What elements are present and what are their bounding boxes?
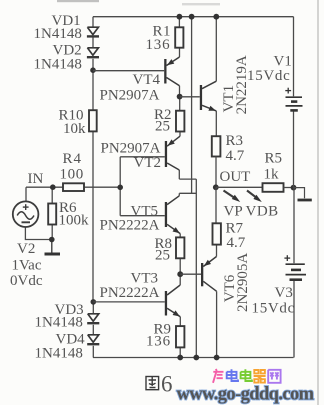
wire: VD2 to bias node A — [92, 59, 94, 70]
input network — [25, 157, 164, 240]
wire: V2 bottom to ground node — [25, 227, 51, 240]
wire: R10 bottom down crossing input wire to node B — [92, 131, 94, 302]
wire: V1 bottom to mid dot — [293, 111, 295, 187]
svg-text:VT4: VT4 — [133, 72, 161, 88]
svg-text:2N2219A: 2N2219A — [234, 55, 250, 114]
wire: node D down to VT3 collector diagonal — [179, 274, 181, 285]
diode VD2 1N4148 — [87, 48, 99, 57]
wire: VT1 collector to top rail — [215, 17, 217, 82]
wire: OUT node down to R7 — [215, 187, 217, 223]
wire: collector jog upper nub — [179, 178, 196, 180]
wire: R9 bottom to bottom rail — [179, 347, 181, 357]
svg-text:4.7: 4.7 — [227, 235, 246, 251]
svg-text:25: 25 — [155, 119, 170, 135]
wire: mid rail lower (jog to bottom rail) — [195, 179, 197, 357]
wire: VT1 emitter to R3 — [215, 111, 217, 136]
svg-text:6: 6 — [161, 372, 173, 397]
svg-text:OUT: OUT — [220, 169, 251, 185]
svg-text:PN2907A: PN2907A — [100, 88, 160, 104]
node: V2/R6 ground dot — [49, 237, 55, 243]
wire: OUT node to R5 — [216, 186, 263, 188]
resistor R3 — [212, 136, 221, 156]
wire: R1 bottom to VT4 emitter diagonal — [179, 48, 181, 57]
wire: between VD3 and VD4 — [92, 325, 94, 335]
wire: node A to R10 top — [92, 70, 94, 110]
svg-text:15Vdc: 15Vdc — [247, 68, 291, 84]
char 网 (violet) — [268, 370, 280, 383]
node D dot (R8 / VT3.c / VT6.b) — [177, 271, 183, 277]
wire: R6 top to input node — [51, 187, 53, 203]
char 电 (blue) — [227, 369, 238, 381]
transistor VT5 PN2222A — [165, 196, 180, 234]
wire: collector jog lower nub — [179, 192, 196, 194]
top rail junction dots — [177, 14, 183, 20]
scan page right edge line — [317, 0, 319, 405]
transistor VT2 PN2907A — [165, 136, 180, 170]
watermark 广电电器网 — [213, 369, 281, 383]
wire: VT5 collector stub — [178, 193, 180, 196]
wire: VT5 base — [120, 215, 165, 217]
svg-text:R5: R5 — [265, 151, 283, 167]
node: input dot at R4 left — [50, 184, 56, 190]
node A dot (bias top, VT4 base tap) — [90, 67, 96, 73]
wire: node B to VD3 — [92, 302, 94, 314]
wire: between VD1 and VD2 — [92, 38, 94, 48]
node: input split dot — [117, 185, 123, 191]
node C dot (VT4.c / R2 / VT1.b) — [177, 94, 183, 100]
wire: R3 to OUT node — [215, 157, 217, 188]
diode VD3 1N4148 — [87, 314, 99, 323]
svg-text:1Vac: 1Vac — [12, 258, 42, 274]
wire: IN horizontal to R4 — [26, 186, 63, 188]
svg-text:V3: V3 — [275, 285, 293, 301]
svg-text:1k: 1k — [264, 167, 280, 183]
svg-text:1N4148: 1N4148 — [35, 315, 83, 331]
svg-text:R7: R7 — [226, 220, 244, 236]
scan top cut-off text remnants — [57, 0, 99, 2]
ground symbol (right) — [298, 199, 312, 202]
wire: top rail to R1 — [178, 17, 180, 28]
wire: R7 bottom to VT6 emitter — [216, 245, 218, 257]
battery rail — [293, 17, 296, 358]
transistor VT4 PN2907A — [93, 57, 180, 86]
svg-text:VT2: VT2 — [134, 155, 162, 171]
svg-text:25: 25 — [155, 248, 170, 264]
wire: R8 bottom to node D — [179, 258, 181, 274]
svg-text:R3: R3 — [226, 133, 244, 149]
resistor R6 — [48, 204, 56, 225]
wire: VT6 collector to bottom rail — [216, 291, 218, 357]
wire: mid rail from top (to jog) — [191, 17, 193, 194]
transistor VT6 2N2905A — [180, 257, 216, 292]
wire: left chain top segment (top rail to VD1) — [92, 17, 94, 28]
resistor R4 — [63, 183, 84, 191]
resistor R8 — [176, 237, 184, 258]
battery V3 15Vdc — [284, 255, 306, 280]
wire: bottom supply rail — [93, 357, 294, 359]
node B dot (bias bottom, VT3 base tap) — [91, 299, 97, 305]
transistor VT1 2N2219A — [180, 81, 217, 111]
wire: R6 bottom to ground node — [51, 225, 53, 240]
svg-text:V2: V2 — [17, 241, 35, 257]
svg-text:VDB: VDB — [246, 204, 279, 220]
svg-text:VP: VP — [224, 204, 243, 220]
wire: R5 to battery rail — [284, 187, 294, 189]
diode VD4 1N4148 — [87, 335, 99, 344]
caption: 图 6 — [146, 377, 159, 390]
wire: VT2 base — [120, 156, 165, 158]
wire: R2 bottom to VT2 emitter diagonal — [179, 132, 181, 137]
wire: V3 bottom to bottom rail — [293, 281, 295, 358]
svg-text:10k: 10k — [63, 121, 86, 137]
source V2 (AC source circle) — [13, 201, 39, 227]
resistor R1 — [175, 27, 183, 47]
resistor R5 — [263, 183, 284, 192]
wire: VD4 to bottom rail — [92, 346, 94, 358]
diode VD1 1N4148 — [87, 27, 99, 36]
node dot at battery rail mid — [291, 185, 297, 191]
resistor R10 — [89, 110, 97, 131]
driver rail (R1 chain) — [179, 17, 196, 358]
svg-text:136: 136 — [146, 37, 171, 53]
char 广 (pink) — [213, 369, 224, 383]
svg-text:1N4148: 1N4148 — [34, 57, 82, 73]
svg-text:1N4148: 1N4148 — [34, 26, 82, 42]
wire: top rail down to V1 — [293, 17, 295, 97]
bottom rail junction dots — [177, 355, 183, 361]
transistor VT3 PN2222A — [93, 285, 180, 317]
svg-text:PN2222A: PN2222A — [100, 285, 160, 301]
svg-text:100k: 100k — [59, 213, 90, 229]
resistor R9 — [176, 326, 184, 347]
resistor R2 — [176, 111, 184, 132]
battery V1 15Vdc — [285, 88, 302, 111]
svg-text:136: 136 — [146, 333, 171, 349]
svg-text:4.7: 4.7 — [226, 148, 245, 164]
ground symbol (V2) — [45, 240, 61, 255]
probe arrow VDB — [247, 191, 262, 203]
resistor R7 — [213, 223, 221, 244]
svg-text:0Vdc: 0Vdc — [10, 273, 43, 289]
svg-text:100: 100 — [60, 167, 84, 183]
probe arrow VP — [224, 191, 241, 203]
svg-text:15Vdc: 15Vdc — [252, 301, 296, 317]
char 电 (green) — [241, 369, 252, 381]
wire: input split vertical — [119, 157, 121, 216]
svg-text:R4: R4 — [63, 151, 83, 167]
svg-text:PN2222A: PN2222A — [100, 218, 160, 234]
wire: IN corner down to V2 top — [25, 187, 27, 201]
wire: VT4 collector vertical into node C — [179, 86, 181, 97]
svg-text:www.go-gddq.com: www.go-gddq.com — [177, 385, 315, 405]
node OUT dot — [213, 184, 219, 190]
char 器 (orange) — [254, 370, 266, 383]
wire: R4 right to input split node — [84, 186, 120, 188]
svg-text:2N2905A: 2N2905A — [235, 253, 251, 312]
wire: node C down to R2 — [179, 97, 181, 111]
wire: VT5 emitter vertical to R8 — [179, 234, 181, 238]
wire: stub to right ground — [294, 188, 305, 199]
wire: VT2 collector stub — [178, 170, 180, 179]
wire: top supply rail — [93, 16, 294, 18]
svg-text:1N4148: 1N4148 — [35, 345, 83, 361]
svg-text:IN: IN — [28, 171, 44, 187]
wire: mid dot to V3 top — [293, 188, 295, 264]
wire: VT3 emitter vertical to R9 — [179, 317, 181, 326]
